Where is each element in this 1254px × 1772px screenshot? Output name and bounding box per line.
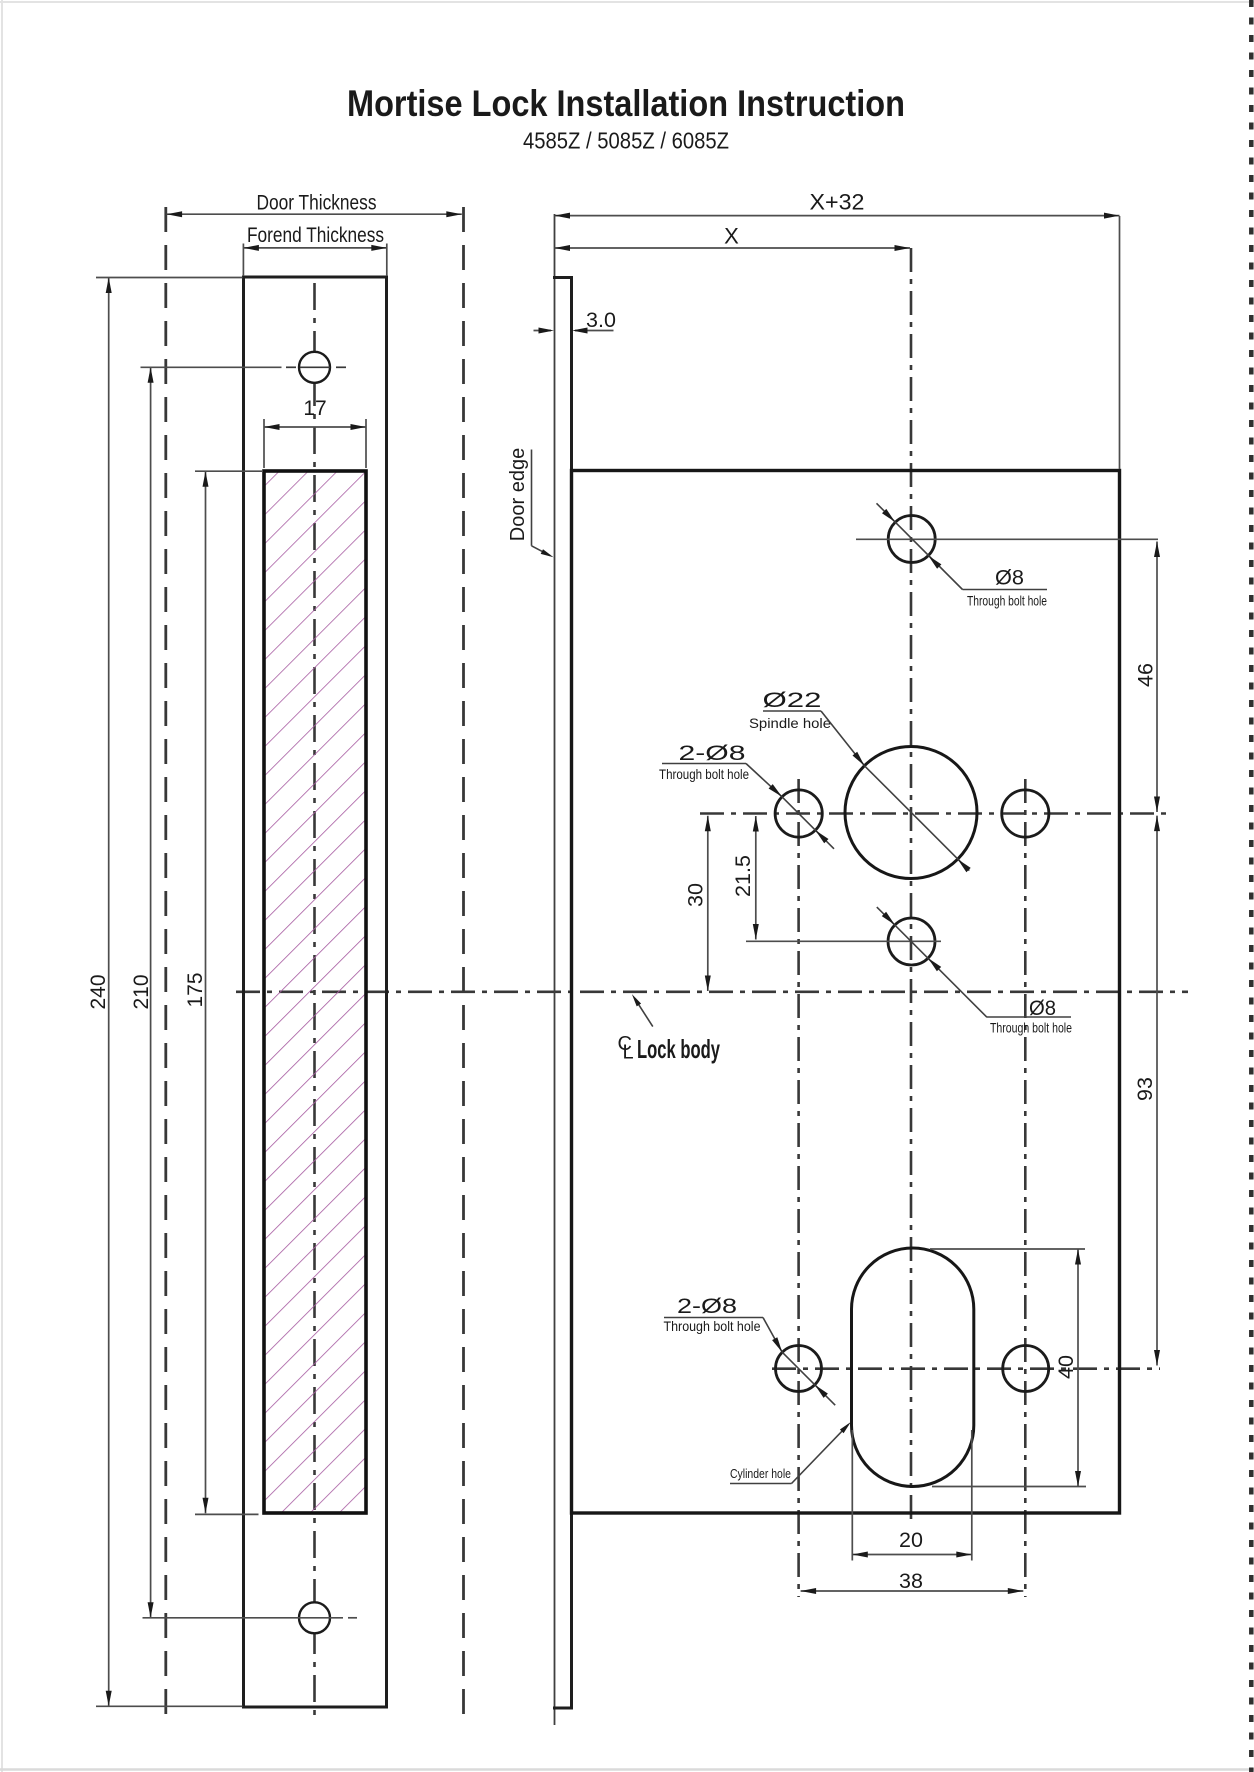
svg-text:Door Thickness: Door Thickness	[257, 192, 377, 215]
top fixing hole centerline	[286, 366, 296, 368]
right hole spindle row	[1002, 790, 1049, 837]
svg-text:21.5: 21.5	[731, 855, 755, 897]
horizontal centerline lock body CL	[236, 990, 1188, 993]
svg-text:Spindle hole: Spindle hole	[749, 715, 831, 731]
svg-text:Ø22: Ø22	[763, 688, 822, 712]
left door edge dashed line	[164, 207, 167, 1724]
spindle hole	[845, 747, 977, 879]
svg-text:Through bolt hole: Through bolt hole	[990, 1020, 1072, 1036]
left through bolt hole	[775, 790, 822, 837]
svg-text:40: 40	[1054, 1355, 1078, 1379]
svg-text:Ø8: Ø8	[995, 566, 1024, 590]
svg-text:2-Ø8: 2-Ø8	[679, 741, 746, 765]
svg-text:38: 38	[899, 1569, 923, 1593]
top through bolt hole	[888, 516, 935, 563]
lower left through bolt hole	[776, 1346, 822, 1392]
svg-text:Cylinder hole: Cylinder hole	[730, 1467, 791, 1481]
forend plate centerline	[313, 283, 316, 1722]
svg-text:3.0: 3.0	[586, 308, 616, 332]
svg-text:L: L	[623, 1042, 634, 1064]
svg-text:X: X	[724, 224, 739, 249]
svg-text:Through bolt hole: Through bolt hole	[659, 766, 749, 782]
right door edge dashed line	[462, 207, 465, 1724]
svg-text:46: 46	[1134, 663, 1158, 687]
svg-text:Lock body: Lock body	[637, 1034, 720, 1064]
left bolt holes vertical centerline	[797, 779, 800, 1597]
svg-text:20: 20	[899, 1528, 923, 1552]
lock body outline	[572, 471, 1120, 1514]
bottom fixing hole	[299, 1602, 330, 1633]
forend side view strip	[554, 214, 556, 1725]
svg-text:X+32: X+32	[810, 190, 865, 215]
cylinder hole stadium	[852, 1248, 974, 1487]
lock body vertical centerline	[910, 248, 913, 1519]
lower right hole	[1003, 1346, 1049, 1392]
svg-text:Door edge: Door edge	[507, 448, 529, 541]
svg-text:2-Ø8: 2-Ø8	[677, 1294, 737, 1318]
svg-text:4585Z / 5085Z / 6085Z: 4585Z / 5085Z / 6085Z	[523, 128, 729, 154]
cylinder row centerline	[772, 1367, 1160, 1370]
svg-text:Mortise Lock Installation Inst: Mortise Lock Installation Instruction	[347, 82, 905, 124]
svg-text:240: 240	[87, 974, 110, 1009]
mortise slot hatched	[264, 471, 366, 1513]
spindle row centerline	[700, 812, 1166, 815]
right holes vertical centerline	[1024, 779, 1027, 1597]
svg-text:30: 30	[684, 883, 708, 907]
middle through bolt hole	[888, 918, 935, 965]
svg-text:17: 17	[303, 397, 326, 420]
svg-text:Ø8: Ø8	[1029, 996, 1056, 1020]
top hole leader and label	[877, 503, 963, 589]
svg-text:Through bolt hole: Through bolt hole	[664, 1318, 761, 1334]
svg-text:Through bolt hole: Through bolt hole	[967, 593, 1047, 609]
top fixing hole	[299, 352, 330, 383]
svg-text:93: 93	[1133, 1077, 1157, 1101]
forend plate front view	[244, 277, 387, 1707]
middle hole leader and label	[877, 907, 987, 1017]
svg-text:210: 210	[130, 974, 153, 1009]
svg-text:175: 175	[184, 972, 207, 1007]
svg-text:Forend Thickness: Forend Thickness	[247, 224, 384, 247]
